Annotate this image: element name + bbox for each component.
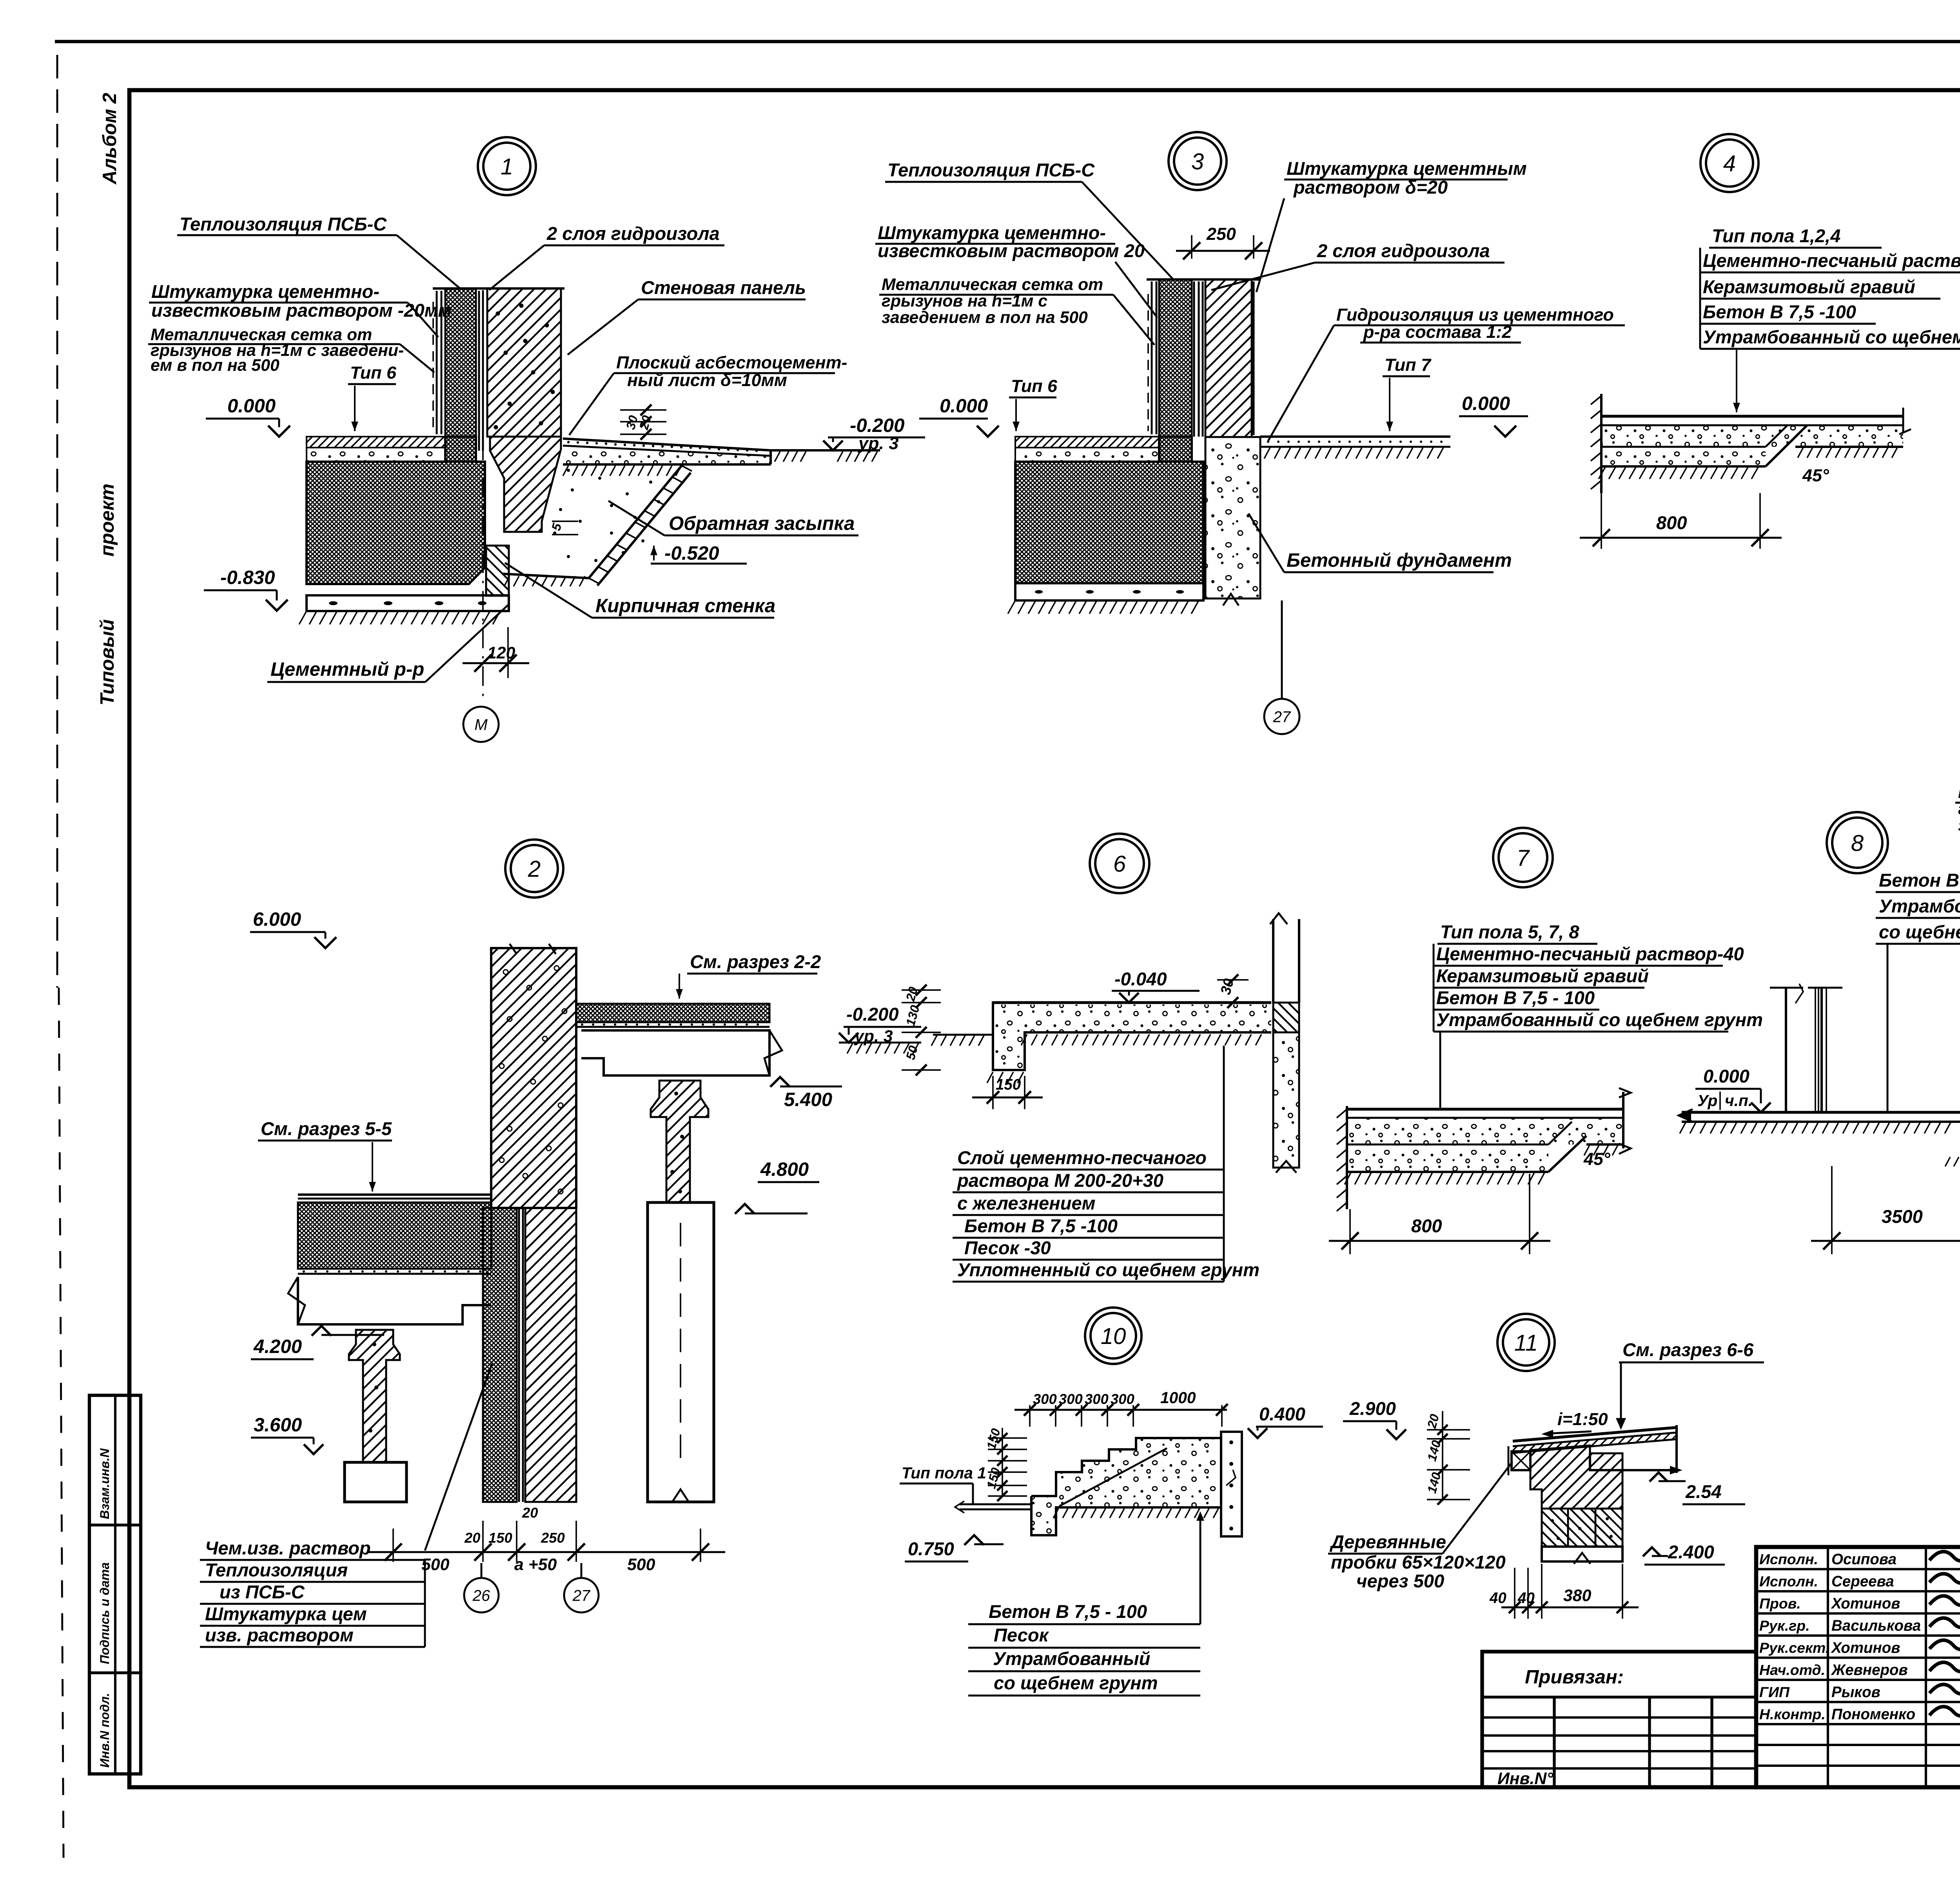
svg-text:-0.040: -0.040 (1114, 968, 1167, 989)
d2 left slab body (298, 1277, 491, 1324)
svg-text:8: 8 (1851, 831, 1864, 856)
svg-text:2 слоя гидроизола: 2 слоя гидроизола (546, 223, 720, 244)
svg-text:Теплоизоляция ПСБ-С: Теплоизоляция ПСБ-С (887, 160, 1095, 180)
d3 plaster right lines (1253, 281, 1255, 435)
d7 soil (1345, 1173, 1351, 1184)
d1 axis dash line (482, 290, 484, 704)
svg-text:проект: проект (96, 484, 118, 557)
d1 foundation crosshatch block (307, 437, 485, 584)
svg-text:Рук.сект.: Рук.сект. (1759, 1639, 1829, 1656)
d4 right break (1902, 408, 1904, 433)
d2 right slab body (581, 1030, 769, 1075)
svg-text:Бетон В 7,5 - 100: Бетон В 7,5 - 100 (1436, 987, 1595, 1008)
d1 dim 5 marks (552, 520, 578, 522)
svg-text:Металлическая сетка от: Металлическая сетка от (1958, 783, 1960, 802)
d2 elev 5.400 (770, 1077, 790, 1087)
d1 brick wall (486, 546, 509, 596)
svg-text:11: 11 (1514, 1330, 1538, 1356)
detail circle 10 (1085, 1308, 1142, 1364)
d1 insulation crosshatch strip (445, 288, 476, 462)
d2 right lower column (648, 1202, 714, 1502)
d8 dim 3500 (1831, 1166, 1833, 1254)
d3 circle 27 (1264, 699, 1299, 734)
d3 left floor hatch layer (1015, 437, 1159, 448)
svg-text:2.54: 2.54 (1685, 1481, 1722, 1502)
svg-text:Бетон В 25 -120: Бетон В 25 -120 (1879, 870, 1960, 890)
d11 elev 2.400 (1643, 1547, 1661, 1556)
d1 ground line right (771, 449, 880, 452)
detail circle 4 (1700, 134, 1759, 192)
svg-text:3: 3 (1191, 149, 1204, 174)
svg-text:2 слоя гидроизола: 2 слоя гидроизола (1317, 240, 1490, 261)
d3 cement strip (1015, 583, 1203, 600)
d11 elev 2.54 (1650, 1473, 1668, 1482)
d2 elev 4.800 (735, 1204, 755, 1214)
d3 wall top line (1147, 278, 1260, 281)
svg-text:6.000: 6.000 (253, 909, 301, 930)
d10 left floor lines (960, 1503, 1031, 1505)
svg-text:Песок: Песок (994, 1625, 1049, 1645)
svg-text:Утрамбованный со щебнем грунт: Утрамбованный со щебнем грунт (1436, 1009, 1763, 1030)
d3 mesh dashed (1147, 294, 1149, 431)
d11 bottom dims (1514, 1568, 1515, 1619)
svg-text:Песок -30: Песок -30 (964, 1237, 1051, 1258)
d2 left slab thin dotted line (298, 1273, 491, 1275)
svg-text:45°: 45° (1583, 1149, 1611, 1169)
d1 backfill dotted area (571, 488, 574, 491)
svg-text:заведением в пол на500: заведением в пол на500 (1958, 816, 1960, 835)
d3 hydro lines (1193, 281, 1195, 437)
detail circle 8 (1827, 812, 1888, 873)
svg-text:Утрамбованный: Утрамбованный (993, 1648, 1150, 1669)
svg-text:Типовый: Типовый (96, 619, 118, 705)
d1 right floor slab (563, 439, 771, 450)
svg-text:Деревянные: Деревянные (1329, 1531, 1446, 1552)
d10 elev 0.750 (964, 1535, 984, 1545)
d8 posts (1785, 988, 1787, 1112)
d3 insulation crosshatch (1159, 279, 1192, 462)
svg-text:i=1:50: i=1:50 (1557, 1409, 1608, 1429)
svg-text:Утрамбованный: Утрамбованный (1879, 896, 1960, 916)
svg-text:150: 150 (488, 1530, 512, 1546)
detail circle 7 (1493, 828, 1553, 887)
svg-text:Тип 6: Тип 6 (350, 363, 397, 383)
svg-text:45°: 45° (1802, 465, 1829, 485)
d1 hydroisol lines (478, 291, 480, 451)
d2 circles 26 27 (481, 1563, 483, 1578)
svg-text:4: 4 (1723, 151, 1736, 176)
d2 wall below slab: insulation and panel (483, 1208, 517, 1502)
svg-text:0.000: 0.000 (227, 395, 276, 417)
svg-text:5: 5 (549, 521, 564, 532)
svg-text:0.000: 0.000 (1462, 393, 1510, 414)
svg-text:Сереева: Сереева (1831, 1573, 1894, 1590)
privyazan table (1482, 1652, 1756, 1787)
svg-text:а +50: а +50 (514, 1555, 557, 1574)
d2 right floor slab crosshatch insulation (576, 1004, 769, 1022)
svg-text:3500: 3500 (1882, 1206, 1923, 1227)
svg-text:с железнением: с железнением (957, 1193, 1096, 1213)
svg-text:Н.контр.: Н.контр. (1759, 1706, 1826, 1723)
d2 right floor thin layer (576, 1026, 769, 1028)
svg-text:500: 500 (627, 1555, 655, 1574)
svg-text:Слой цементно-песчаного: Слой цементно-песчаного (957, 1147, 1207, 1168)
d3 plaster left lines (1151, 281, 1153, 434)
d1 soil under right slab (563, 466, 568, 476)
svg-text:1000: 1000 (1160, 1389, 1196, 1407)
d8 slab (1682, 1111, 1960, 1114)
svg-text:140: 140 (1425, 1439, 1444, 1463)
title block outer (1756, 1547, 1960, 1787)
d1 wall panel concrete (487, 288, 561, 437)
svg-text:Обратная засыпка: Обратная засыпка (669, 513, 855, 534)
svg-text:300: 300 (1059, 1391, 1083, 1407)
svg-text:Чем.изв. раствор: Чем.изв. раствор (205, 1538, 371, 1558)
svg-text:Альбом 2: Альбом 2 (99, 93, 120, 185)
svg-text:5.400: 5.400 (784, 1089, 832, 1110)
svg-text:27: 27 (572, 1587, 591, 1604)
d1 circle M (463, 707, 499, 742)
svg-text:2.400: 2.400 (1668, 1541, 1714, 1562)
svg-text:Тип 6: Тип 6 (1011, 376, 1058, 396)
d4 left edge (1600, 394, 1602, 493)
d1 left floor hatch layer (307, 437, 445, 448)
svg-text:Плоский асбестоцемент-: Плоский асбестоцемент- (616, 352, 847, 372)
svg-text:Тип пола 1,2,4: Тип пола 1,2,4 (1712, 225, 1840, 246)
svg-text:Рук.гр.: Рук.гр. (1759, 1618, 1810, 1634)
svg-text:Жевнеров: Жевнеров (1831, 1662, 1908, 1679)
svg-text:изв. раствором: изв. раствором (205, 1625, 354, 1645)
d1 plaster lines left (436, 291, 438, 434)
d4 soil (1599, 467, 1605, 479)
svg-text:со щебнем грунт: со щебнем грунт (1879, 921, 1960, 942)
svg-text:См. разрез 2-2: См. разрез 2-2 (690, 951, 821, 972)
d8 left break arrow (1679, 1109, 1693, 1122)
d2 left slab break zigzag (288, 1277, 305, 1324)
d1 cement strip specks (329, 601, 338, 605)
svg-text:Штукатурка цементным: Штукатурка цементным (1287, 158, 1527, 179)
outer left sheet edge dashed line (56, 55, 58, 988)
d2 bottom dims (392, 1529, 394, 1562)
svg-text:2.900: 2.900 (1349, 1398, 1396, 1419)
d1 left floor concrete layer (307, 448, 445, 462)
d8 soil (1680, 1123, 1686, 1133)
d7 dim 800 (1349, 1209, 1351, 1254)
svg-text:Инв.N°: Инв.N° (1497, 1769, 1553, 1788)
svg-text:800: 800 (1656, 512, 1687, 533)
svg-text:800: 800 (1411, 1215, 1442, 1236)
svg-text:-0.830: -0.830 (220, 567, 275, 588)
svg-text:Теплоизоляция: Теплоизоляция (205, 1560, 348, 1580)
svg-text:-0.200: -0.200 (846, 1004, 899, 1025)
d2 left slab 4.200 top line (298, 1193, 491, 1196)
d10 right wall strip (1221, 1432, 1242, 1536)
d3 soil under strip (1008, 600, 1015, 614)
svg-text:20: 20 (903, 985, 920, 1003)
detail circle 3 (1169, 132, 1227, 190)
svg-text:Рыков: Рыков (1831, 1684, 1880, 1701)
svg-text:0.000: 0.000 (1703, 1066, 1749, 1086)
svg-text:0.400: 0.400 (1259, 1404, 1305, 1424)
d2 right slab break mark (764, 1030, 782, 1075)
svg-text:Уплотненный со щебнем грунт: Уплотненный со щебнем грунт (957, 1259, 1259, 1280)
d10 stairs body (1031, 1438, 1221, 1535)
d6 dim 150 under step (992, 1076, 994, 1109)
svg-text:2: 2 (528, 856, 541, 882)
d3 right floor (1260, 435, 1450, 438)
d1 excavation bottom line (503, 574, 589, 578)
d2 left column footing (345, 1462, 407, 1502)
svg-text:26: 26 (472, 1587, 490, 1604)
d10 left vert dims (1002, 1428, 1003, 1496)
detail circle 6 (1090, 834, 1149, 893)
svg-text:Тип пола 5, 7, 8: Тип пола 5, 7, 8 (1440, 921, 1579, 942)
d3 dim 250 above (1191, 235, 1192, 259)
svg-text:Бетонный фундамент: Бетонный фундамент (1287, 549, 1512, 571)
svg-text:Подпись и дата: Подпись и дата (98, 1562, 112, 1664)
svg-text:27: 27 (1273, 708, 1291, 725)
d1 elev -0.520 (653, 546, 655, 560)
svg-text:См. разрез 5-5: См. разрез 5-5 (261, 1118, 392, 1139)
svg-text:из ПСБ-С: из ПСБ-С (220, 1581, 305, 1602)
d10 soil under body (1053, 1509, 1058, 1518)
svg-text:Взам.инв.N: Взам.инв.N (98, 1448, 112, 1519)
svg-text:300: 300 (1033, 1391, 1057, 1407)
d1 wall top line (433, 287, 564, 290)
d2 left slab crosshatch (298, 1202, 491, 1269)
svg-text:Утрамбованный со щебнем грунт: Утрамбованный со щебнем грунт (1703, 326, 1960, 347)
d3 wall panel hatch (1205, 279, 1252, 437)
svg-text:Теплоизоляция ПСБ-С: Теплоизоляция ПСБ-С (180, 214, 387, 234)
d7 floor (1347, 1108, 1623, 1110)
svg-text:130: 130 (903, 1004, 922, 1028)
svg-text:4.200: 4.200 (253, 1336, 302, 1357)
d11 vert dims 20 140 140 (1442, 1411, 1443, 1501)
d11 brick blocks (1542, 1509, 1622, 1547)
svg-text:со щебнем грунт: со щебнем грунт (994, 1672, 1158, 1693)
d1 mesh dashed line (432, 302, 434, 431)
d1 excavation slope band (589, 466, 682, 578)
svg-text:Тип пола 1: Тип пола 1 (902, 1464, 986, 1482)
svg-text:Цементно-песчаный раствор-40: Цементно-песчаный раствор-40 (1703, 250, 1960, 271)
svg-text:150: 150 (996, 1076, 1021, 1093)
svg-text:Керамзитовый гравий: Керамзитовый гравий (1703, 276, 1915, 297)
d6 left small dims (902, 989, 941, 991)
d4 arrow to floor (1736, 349, 1737, 412)
d2 elev 4.200 (312, 1326, 331, 1336)
svg-text:1: 1 (501, 154, 513, 180)
svg-text:250: 250 (1206, 224, 1236, 244)
signature table (1756, 1568, 1960, 1570)
d4 dim 800 (1601, 493, 1602, 549)
svg-text:Керамзитовый гравий: Керамзитовый гравий (1436, 965, 1649, 986)
svg-text:ГИП: ГИП (1759, 1684, 1790, 1700)
svg-text:Штукатурка цементно-: Штукатурка цементно- (151, 281, 379, 302)
svg-text:300: 300 (1085, 1391, 1109, 1407)
svg-text:Исполн.: Исполн. (1759, 1551, 1818, 1567)
d1 wall panel dots (496, 312, 500, 316)
svg-text:Штукатурка цем: Штукатурка цем (205, 1603, 367, 1624)
d10 slope line (1059, 1448, 1167, 1506)
d1 soil hatch under strip (299, 611, 307, 624)
svg-text:20: 20 (1425, 1413, 1442, 1430)
d6 soil (1021, 1034, 1027, 1045)
svg-text:Тип 7: Тип 7 (1385, 355, 1432, 375)
d6 right column (1272, 919, 1274, 1003)
svg-text:Хотинов: Хотинов (1831, 1639, 1900, 1656)
detail circle 2 (505, 840, 563, 898)
svg-text:через 500: через 500 (1356, 1571, 1444, 1591)
svg-text:См. разрез 6-6: См. разрез 6-6 (1622, 1339, 1754, 1360)
d11 roof slab (1513, 1427, 1677, 1441)
d7 leader to floor (1439, 1032, 1441, 1108)
d2 right mid column with corbel (651, 1081, 708, 1202)
svg-text:-0.520: -0.520 (664, 542, 719, 564)
detail circle 1 (478, 137, 536, 195)
svg-text:0.750: 0.750 (908, 1538, 954, 1559)
svg-text:40: 40 (1517, 1590, 1535, 1607)
d11 bottom pad (1542, 1547, 1622, 1561)
svg-text:20: 20 (464, 1530, 480, 1546)
svg-text:Пономенко: Пономенко (1831, 1706, 1915, 1723)
svg-text:0.000: 0.000 (940, 395, 988, 417)
svg-text:Василькова: Василькова (1831, 1618, 1921, 1634)
svg-text:380: 380 (1563, 1586, 1592, 1605)
d4 slope lines (1766, 425, 1788, 447)
d3 left floor concrete layer (1015, 448, 1159, 462)
svg-text:6: 6 (1113, 851, 1126, 877)
d7 left edge (1346, 1106, 1348, 1209)
left stamp boxes (89, 1395, 141, 1774)
svg-text:Инв.N подл.: Инв.N подл. (98, 1693, 112, 1768)
d1 small dims 30 20 (620, 409, 666, 411)
d3 concrete foundation column (1205, 437, 1260, 598)
sheet top band line (55, 40, 1960, 44)
svg-text:Бетон В 7,5 -100: Бетон В 7,5 -100 (964, 1215, 1118, 1236)
svg-text:Исполн.: Исполн. (1759, 1573, 1818, 1590)
d4 floor layers (1601, 415, 1903, 417)
d2 central column (491, 948, 576, 1208)
svg-text:Цементный р-р: Цементный р-р (270, 658, 424, 680)
d1 panel lower trapezoid (490, 437, 561, 532)
svg-text:Цементно-песчаный раствор-40: Цементно-песчаный раствор-40 (1436, 943, 1744, 964)
d3 column break mark (1223, 594, 1239, 606)
svg-text:7: 7 (1517, 845, 1530, 871)
d7 right bar (1622, 1092, 1624, 1148)
d6 slab (993, 1001, 1271, 1004)
svg-text:40: 40 (1489, 1590, 1506, 1607)
d11 wall hatch block (1530, 1445, 1622, 1509)
svg-text:140: 140 (1425, 1471, 1444, 1495)
svg-text:заведением в пол на 500: заведением в пол на 500 (882, 308, 1088, 327)
svg-text:10: 10 (1101, 1324, 1126, 1349)
svg-text:Осипова: Осипова (1831, 1551, 1896, 1568)
svg-text:Привязан:: Привязан: (1525, 1666, 1624, 1688)
svg-text:300: 300 (1111, 1391, 1134, 1407)
svg-text:ур. 3: ур. 3 (858, 433, 898, 453)
svg-text:Бетон В 7,5 - 100: Бетон В 7,5 - 100 (989, 1601, 1147, 1622)
d3 line to circle 27 (1281, 600, 1283, 698)
svg-text:250: 250 (541, 1530, 565, 1546)
svg-text:50: 50 (903, 1044, 920, 1061)
d11 right slab part (1590, 1453, 1677, 1470)
d2 left lower column (349, 1330, 400, 1462)
svg-text:Стеновая панель: Стеновая панель (641, 277, 806, 298)
svg-text:150: 150 (984, 1427, 1003, 1451)
d8 leader (1887, 944, 1889, 1112)
svg-text:М: М (474, 716, 488, 733)
svg-text:ч.п.: ч.п. (1725, 1092, 1753, 1110)
svg-text:Металлическая сетка от: Металлическая сетка от (882, 275, 1103, 294)
svg-text:ем в пол на 500: ем в пол на 500 (151, 356, 279, 375)
d11 wood block (1512, 1451, 1530, 1470)
svg-text:4.800: 4.800 (760, 1159, 809, 1180)
svg-text:20: 20 (522, 1505, 538, 1521)
svg-text:Хотинов: Хотинов (1831, 1595, 1900, 1612)
svg-text:Пров.: Пров. (1759, 1595, 1801, 1612)
svg-text:раствора М 200-20+30: раствора М 200-20+30 (956, 1170, 1163, 1191)
svg-text:3.600: 3.600 (254, 1414, 302, 1436)
detail circle 11 (1497, 1314, 1555, 1371)
svg-text:Ур: Ур (1697, 1092, 1717, 1110)
svg-text:Нач.отд.: Нач.отд. (1759, 1662, 1825, 1678)
svg-text:Бетон В 7,5 -100: Бетон В 7,5 -100 (1703, 301, 1856, 322)
d3 foundation crosshatch block (1015, 437, 1203, 583)
svg-text:Кирпичная стенка: Кирпичная стенка (595, 595, 775, 617)
d1 cement mortar strip (307, 595, 509, 611)
svg-text:пробки 65×120×120: пробки 65×120×120 (1331, 1552, 1506, 1572)
